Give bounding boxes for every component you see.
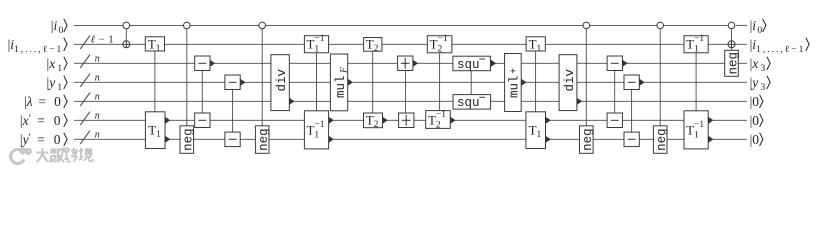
cnot target X2 on q1: [728, 41, 735, 48]
gate T1c on q1: [526, 37, 545, 55]
svg-text:neg: neg: [726, 52, 740, 75]
svg-text:ℓ: ℓ: [91, 34, 96, 45]
svg-text:−: −: [99, 34, 105, 45]
gate T2inv b on q5: [426, 110, 456, 130]
bus slash q1 label l-1: [80, 34, 113, 49]
connector T2 pair: [372, 51, 374, 113]
svg-text:y: y: [750, 75, 760, 90]
svg-text:1: 1: [314, 130, 319, 140]
svg-text:0: 0: [752, 113, 759, 128]
gate squ2 on q4: [453, 95, 491, 111]
svg-text:neg: neg: [257, 128, 271, 151]
label |x3> right: [750, 56, 771, 74]
label |x1> left: [47, 56, 68, 74]
label |y1> left: [47, 75, 68, 93]
label |i0> right: [750, 18, 766, 36]
gate mulF on q2,q3,q4: [330, 54, 353, 111]
wire q5 |x'>: [74, 119, 747, 121]
svg-text:mul: mul: [508, 76, 522, 99]
svg-text:neg: neg: [581, 128, 595, 151]
connector T1inv pair 2: [695, 53, 697, 111]
gate div1 on q2,q3,q4: [271, 55, 295, 111]
bus slash q6 label n: [80, 129, 100, 144]
svg-text:neg: neg: [655, 128, 669, 151]
gate sub3 minus on q5: [607, 113, 622, 128]
svg-text:3: 3: [761, 64, 767, 74]
cnot target X1 on q1: [123, 41, 130, 48]
gate div2 on q2,q3,q4: [559, 55, 582, 111]
svg-text:y: y: [47, 75, 57, 90]
gate T2 b on q5: [364, 113, 388, 131]
svg-text:2: 2: [374, 44, 379, 54]
control c3 on q0: [259, 22, 266, 126]
gate neg5 on q2: [725, 50, 741, 76]
wire q4 |lambda>: [74, 100, 747, 102]
svg-text:n: n: [95, 72, 100, 83]
wire q1 |i1..l-1>: [74, 43, 747, 45]
connector sub3: [614, 71, 616, 114]
control c4 on q0: [583, 22, 590, 126]
gate T1inv a on q1: [304, 34, 328, 54]
svg-text:1: 1: [537, 44, 542, 54]
label |0> right q4: [750, 94, 763, 109]
gate T1inv d on q5,q6: [684, 111, 713, 149]
wire q6 |y'>: [74, 138, 747, 140]
gate sub2 minus on q3: [225, 75, 246, 90]
svg-text:1: 1: [108, 34, 113, 45]
svg-text:div: div: [563, 69, 577, 92]
gate T2inv a on q1: [427, 34, 452, 54]
svg-text:0: 0: [752, 132, 759, 147]
label |i1,...,l-1> left: [8, 37, 68, 55]
label |lambda=0> left: [24, 94, 67, 109]
control c6 on q0: [728, 22, 735, 50]
svg-text:= 0: = 0: [31, 113, 63, 128]
svg-text:T: T: [366, 113, 374, 128]
gate sub2 minus on q6: [225, 132, 240, 147]
svg-text:T: T: [148, 122, 156, 137]
connector T2inv pair: [439, 53, 441, 111]
gate sub3 minus on q2: [607, 56, 628, 71]
gate squ1 on q2: [453, 56, 496, 72]
svg-text:x: x: [751, 56, 760, 71]
svg-text:+: +: [510, 68, 521, 74]
connector T1 pair: [154, 51, 156, 112]
svg-text:T: T: [428, 113, 436, 128]
connector sub2: [232, 90, 234, 133]
gate add plus on q2: [398, 56, 419, 71]
svg-text:1: 1: [156, 130, 161, 140]
label |i1,...,l-1> right: [750, 37, 810, 55]
svg-text:n: n: [95, 110, 100, 121]
gate neg2 on q6: [255, 126, 271, 154]
label |y3> right: [750, 75, 771, 93]
gate T1 b on q5,q6: [145, 112, 170, 149]
gate neg3 on q6: [580, 126, 596, 154]
svg-text:n: n: [95, 129, 100, 140]
svg-text:y: y: [21, 132, 29, 147]
gate sub4 minus on q6: [624, 132, 639, 147]
gate add plus on q5: [399, 113, 414, 128]
svg-text:T: T: [529, 122, 537, 137]
svg-text:div: div: [275, 69, 289, 92]
connector sub4: [631, 90, 633, 133]
control c1 on q0: [123, 22, 130, 41]
svg-text:1: 1: [694, 130, 699, 140]
connector T1inv pair: [316, 53, 318, 111]
svg-text:n: n: [95, 91, 100, 102]
label |i0> left: [51, 18, 67, 36]
svg-text:= 0: = 0: [33, 94, 64, 109]
svg-text:−1: −1: [694, 34, 704, 44]
gate sub1 minus on q5: [195, 113, 210, 128]
svg-text:−1: −1: [314, 120, 324, 130]
connector add pair: [405, 71, 407, 114]
svg-text:2: 2: [374, 120, 379, 130]
svg-text:= 0: = 0: [31, 132, 63, 147]
svg-text:x: x: [22, 113, 29, 128]
connector sub1: [201, 71, 203, 114]
watermark text: [37, 148, 93, 162]
svg-text:T: T: [307, 122, 315, 137]
label |x'=0> left: [20, 112, 67, 128]
svg-text:T: T: [686, 122, 694, 137]
label |0> right q6: [750, 132, 763, 147]
watermark logo: [11, 149, 31, 164]
svg-text:T: T: [148, 37, 156, 52]
gate sub1 minus on q2: [195, 56, 215, 71]
connector squ pair: [470, 71, 472, 95]
svg-text:2: 2: [436, 121, 441, 131]
gate T1 a on q1: [145, 37, 164, 55]
gate neg4 on q6: [653, 126, 669, 154]
svg-text:−1: −1: [314, 34, 324, 44]
svg-text:1: 1: [537, 130, 542, 140]
gate T1d on q5,q6: [526, 112, 551, 149]
svg-text:0: 0: [752, 94, 759, 109]
svg-text:squ: squ: [457, 96, 480, 110]
control c5 on q0: [657, 22, 664, 126]
gate mulplus on q2,q3,q4: [505, 54, 527, 112]
svg-text:1: 1: [57, 83, 63, 93]
svg-text:T: T: [366, 37, 374, 52]
svg-text:1: 1: [156, 44, 161, 54]
svg-text:1: 1: [57, 64, 63, 74]
svg-text:squ: squ: [457, 58, 480, 72]
gate neg1 on q6: [180, 126, 196, 154]
svg-text:1,...,ℓ−1: 1,...,ℓ−1: [756, 45, 805, 55]
svg-text:x: x: [48, 56, 57, 71]
svg-text:T: T: [307, 37, 315, 52]
gate T1inv b on q5,q6: [304, 111, 333, 149]
svg-text:n: n: [95, 53, 100, 64]
svg-text:−1: −1: [436, 110, 446, 120]
bus slash q4 label n: [80, 91, 100, 106]
wire q3 |y1>: [74, 81, 747, 83]
svg-text:−1: −1: [694, 120, 704, 130]
gate T2 a on q1: [364, 37, 382, 55]
svg-text:1,...,ℓ−1: 1,...,ℓ−1: [14, 45, 63, 55]
svg-text:T: T: [430, 37, 438, 52]
label |0> right q5: [750, 113, 763, 128]
gate sub4 minus on q3: [624, 75, 645, 90]
svg-text:mul: mul: [334, 76, 348, 99]
wire q2 |x1>: [74, 62, 747, 64]
svg-text:0: 0: [59, 26, 64, 36]
bus slash q5 label n: [80, 110, 100, 125]
gate T1inv c on q1: [684, 34, 708, 54]
bus slash q2 label n: [80, 53, 100, 68]
svg-text:−1: −1: [438, 34, 448, 44]
control c2 on q0: [184, 22, 191, 126]
wire q0 |i0>: [74, 24, 747, 26]
bus slash q3 label n: [80, 72, 100, 87]
svg-text:T: T: [529, 37, 537, 52]
svg-text:T: T: [686, 37, 694, 52]
connector T1 pair 2: [535, 51, 537, 112]
label |y'=0> left: [20, 131, 67, 147]
svg-text:3: 3: [761, 83, 767, 93]
svg-text:F: F: [340, 67, 350, 74]
svg-text:neg: neg: [182, 128, 196, 151]
svg-text:0: 0: [757, 26, 762, 36]
